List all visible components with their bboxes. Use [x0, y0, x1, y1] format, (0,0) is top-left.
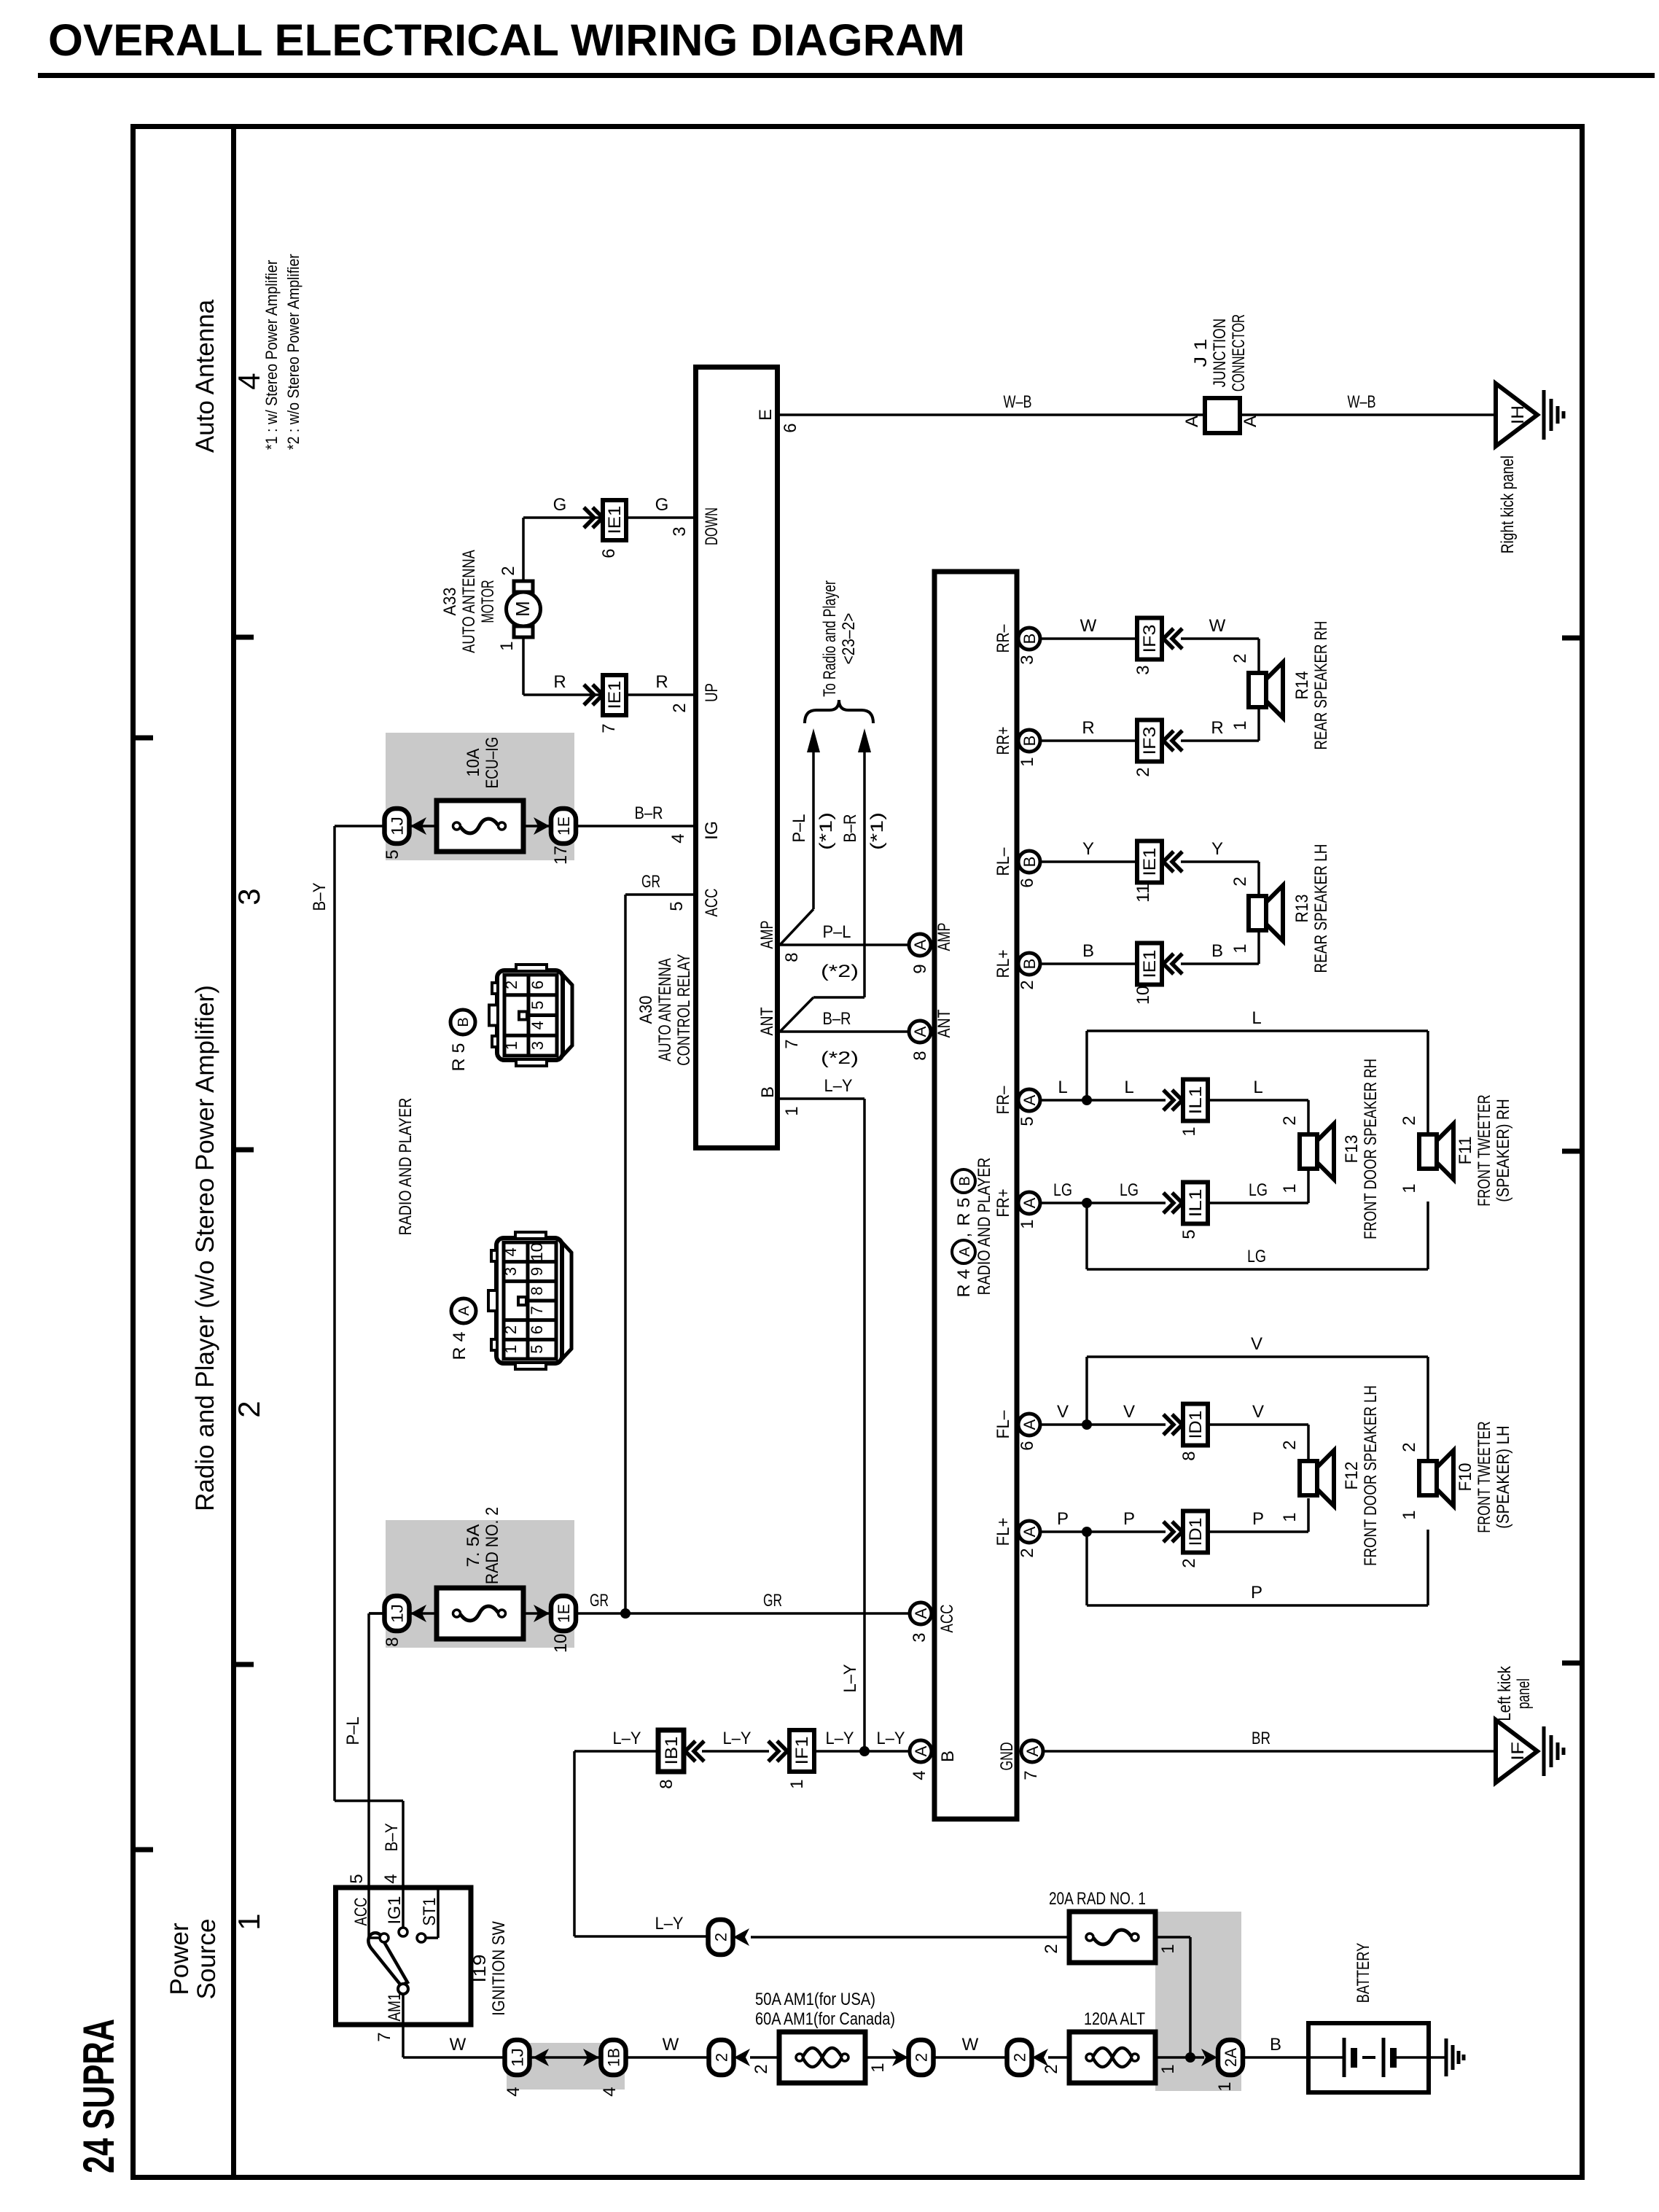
svg-text:RL–: RL–	[994, 847, 1013, 876]
chevron ID1 P	[1163, 1522, 1182, 1542]
svg-text:V: V	[1123, 1402, 1135, 1422]
svg-text:2: 2	[501, 1325, 520, 1334]
notes *1 *2 stereo power amplifier	[262, 254, 302, 450]
svg-text:B–R: B–R	[823, 1009, 851, 1029]
svg-text:ID1: ID1	[1186, 1518, 1206, 1546]
pin 5 FR- of radio	[1018, 1089, 1040, 1111]
svg-text:6: 6	[1018, 1441, 1037, 1450]
svg-text:1: 1	[1400, 1510, 1419, 1519]
speaker F10 FRONT TWEETER LH	[1400, 1421, 1513, 1533]
section ticks on label column	[236, 635, 254, 1667]
gray shade for ALT RAD1 2A area	[1155, 1912, 1241, 2091]
connector circle A pin 8 ANT radio	[909, 1009, 954, 1060]
connector 1J of ECU-IG fuse pin 5	[383, 809, 410, 860]
svg-text:IGNITION SW: IGNITION SW	[489, 1921, 509, 2016]
svg-text:R 4: R 4	[954, 1269, 974, 1298]
svg-text:IH: IH	[1508, 405, 1528, 424]
svg-text:3: 3	[501, 1267, 520, 1276]
connector 2 oval before ALT fuse	[1007, 2040, 1049, 2075]
svg-text:(*2): (*2)	[821, 1048, 859, 1068]
svg-text:A: A	[1241, 416, 1260, 427]
fuse 10A ECU-IG assembly	[335, 733, 693, 860]
svg-text:Y: Y	[1211, 839, 1223, 859]
svg-text:G: G	[655, 495, 669, 515]
switch I19 IGNITION SW box	[336, 1888, 472, 2025]
svg-text:(*1): (*1)	[867, 812, 887, 850]
svg-text:1: 1	[1400, 1183, 1419, 1193]
svg-text:1J: 1J	[389, 1604, 407, 1623]
wire LG radio to IL1 with junction	[1039, 1180, 1166, 1208]
pin 7 ANT of A30 and wire B-R (*2) to radio	[757, 1007, 910, 1068]
svg-text:10A: 10A	[464, 749, 483, 777]
svg-text:(*1): (*1)	[816, 812, 836, 850]
svg-text:2: 2	[1400, 1115, 1419, 1125]
connector IF3 pin 3	[1137, 618, 1162, 660]
ground IH right kick panel	[1496, 383, 1564, 553]
chevron ID1 V	[1163, 1414, 1182, 1435]
svg-text:1E: 1E	[555, 817, 573, 836]
wires P-L and B-R (*1) with up arrows to radio and player	[780, 728, 871, 1032]
svg-text:4: 4	[504, 2087, 523, 2096]
svg-text:24 SUPRA: 24 SUPRA	[74, 2019, 123, 2173]
connector IE1 pin 11	[1137, 841, 1162, 883]
svg-text:W–B: W–B	[1004, 392, 1032, 412]
wire R IF3 to rear speaker RH pin 1	[1181, 707, 1259, 741]
svg-text:W: W	[663, 2035, 679, 2055]
svg-text:7. 5A: 7. 5A	[464, 1524, 483, 1568]
pin E of A30	[756, 409, 800, 433]
svg-text:A33: A33	[440, 588, 460, 616]
svg-text:6: 6	[528, 1325, 546, 1334]
wire G IE1 to A30 DOWN	[626, 516, 693, 519]
svg-text:IB1: IB1	[662, 1737, 682, 1765]
connector 1E of ECU-IG fuse pin 17	[551, 809, 576, 865]
svg-text:2: 2	[752, 2064, 771, 2073]
pin 2 UP of A30	[670, 683, 722, 713]
svg-text:ACC: ACC	[702, 889, 722, 917]
section ticks on left border	[136, 736, 153, 1853]
svg-text:3: 3	[1018, 655, 1037, 664]
connector ID1 pin 2	[1183, 1511, 1208, 1553]
chevron IL1 LG	[1163, 1193, 1182, 1213]
label B-R (*1)	[840, 812, 887, 850]
svg-text:P: P	[1057, 1509, 1069, 1529]
svg-text:B–R: B–R	[635, 803, 663, 823]
svg-text:9: 9	[528, 1267, 546, 1276]
svg-text:3: 3	[528, 1041, 547, 1050]
svg-text:B: B	[456, 1017, 472, 1027]
svg-text:4: 4	[600, 2087, 620, 2096]
svg-text:JUNCTION: JUNCTION	[1210, 319, 1230, 387]
speaker R13 REAR SPEAKER LH	[1249, 844, 1331, 973]
svg-text:AUTO ANTENNA: AUTO ANTENNA	[655, 958, 675, 1062]
svg-text:R13: R13	[1292, 895, 1312, 923]
svg-text:4: 4	[381, 1874, 401, 1883]
svg-text:5: 5	[528, 1001, 547, 1010]
svg-text:A: A	[1023, 1745, 1042, 1756]
chevron IF3 W	[1163, 628, 1182, 649]
svg-text:GR: GR	[590, 1591, 609, 1611]
svg-text:IF: IF	[1508, 1742, 1528, 1761]
chevron IL1 L	[1163, 1090, 1182, 1110]
wire R motor to IE1	[523, 693, 603, 696]
svg-text:5: 5	[528, 1345, 546, 1354]
svg-text:1B: 1B	[605, 2048, 623, 2067]
svg-text:V: V	[1252, 1402, 1264, 1422]
pin 1 RR+ of radio	[1018, 730, 1040, 752]
svg-text:FL+: FL+	[994, 1518, 1013, 1546]
svg-text:IF3: IF3	[1140, 625, 1160, 653]
wire L branch to front tweeter RH pin 2	[1087, 1008, 1428, 1133]
svg-text:B: B	[758, 1086, 778, 1098]
svg-text:L: L	[1058, 1078, 1067, 1097]
wire W from AM1 to 1J	[403, 1994, 505, 2057]
svg-text:RADIO AND PLAYER: RADIO AND PLAYER	[396, 1098, 415, 1236]
svg-text:2: 2	[1179, 1558, 1199, 1568]
wire B-Y from fuse 1J down to ignition switch IG1	[335, 826, 403, 1889]
svg-text:L–Y: L–Y	[824, 1076, 853, 1096]
svg-text:CONNECTOR: CONNECTOR	[1229, 314, 1249, 392]
svg-text:V: V	[1251, 1334, 1262, 1354]
wire E to ground (W-B)	[780, 413, 1496, 416]
svg-text:W: W	[1080, 616, 1097, 636]
pin 8 AMP of A30 and wire P-L (*2) to radio	[757, 921, 910, 982]
svg-text:2: 2	[1400, 1442, 1419, 1452]
svg-text:V: V	[1057, 1402, 1069, 1422]
svg-text:(*2): (*2)	[821, 962, 859, 981]
pin 2 FL+ of radio	[1018, 1521, 1040, 1543]
wire G motor to IE1	[523, 516, 603, 519]
svg-text:10: 10	[528, 1242, 546, 1261]
label To Radio and Player 23-2	[820, 580, 859, 697]
svg-text:A: A	[1020, 1419, 1039, 1430]
svg-text:AMP: AMP	[934, 923, 954, 951]
svg-text:2: 2	[1280, 1440, 1300, 1449]
svg-text:2: 2	[1018, 980, 1037, 989]
svg-text:FR–: FR–	[994, 1086, 1013, 1115]
svg-text:IL1: IL1	[1186, 1086, 1206, 1115]
svg-text:6: 6	[528, 981, 547, 989]
svg-text:RR+: RR+	[994, 727, 1013, 755]
svg-text:G: G	[553, 495, 567, 515]
connector 2 oval on L-Y wire	[709, 1920, 750, 1955]
svg-text:IE1: IE1	[605, 506, 625, 534]
connector IE1 (G) pin 6	[599, 500, 626, 558]
svg-text:P: P	[1252, 1509, 1264, 1529]
svg-text:2: 2	[1011, 2053, 1029, 2062]
svg-text:10: 10	[551, 1634, 571, 1653]
svg-text:1: 1	[502, 1041, 520, 1050]
svg-text:7: 7	[528, 1306, 546, 1315]
svg-text:B: B	[1020, 736, 1039, 747]
speaker F12 FRONT DOOR SPEAKER LH	[1300, 1385, 1381, 1566]
svg-text:9: 9	[910, 964, 930, 973]
wire P ID1 to front door speaker LH pin 1	[1208, 1498, 1308, 1532]
svg-text:L: L	[1252, 1008, 1261, 1028]
svg-text:B: B	[1211, 941, 1223, 961]
wire B 2A to battery	[1242, 2056, 1308, 2059]
svg-text:LG: LG	[1249, 1180, 1268, 1200]
svg-text:A: A	[957, 1247, 973, 1257]
wire L radio to IL1 with junction	[1039, 1078, 1166, 1105]
svg-text:7: 7	[782, 1039, 802, 1048]
battery ground	[1445, 2038, 1448, 2076]
svg-text:IF3: IF3	[1140, 727, 1160, 755]
svg-text:L: L	[1253, 1078, 1262, 1097]
svg-text:A: A	[912, 1608, 930, 1619]
svg-text:6: 6	[599, 548, 619, 558]
wire L-Y bottom link from IB1 to RAD NO.1 fuse	[574, 1729, 709, 1936]
svg-text:2: 2	[1230, 653, 1250, 663]
wire LG branch to front tweeter RH pin 1	[1087, 1202, 1428, 1269]
svg-text:ANT: ANT	[757, 1007, 777, 1035]
svg-text:4: 4	[910, 1770, 929, 1780]
svg-text:5: 5	[667, 901, 687, 911]
svg-text:AM1: AM1	[385, 1993, 405, 2022]
svg-text:R 5: R 5	[954, 1198, 974, 1226]
svg-text:4: 4	[528, 1021, 547, 1029]
speaker F11 FRONT TWEETER RH	[1400, 1094, 1513, 1206]
svg-text:(SPEAKER) LH: (SPEAKER) LH	[1494, 1425, 1513, 1529]
fuse 50A/60A AM1	[750, 1990, 895, 2083]
wire L IL1 to front door speaker RH pin 2	[1208, 1078, 1308, 1133]
svg-text:IL1: IL1	[1186, 1189, 1206, 1218]
svg-text:1E: 1E	[555, 1604, 573, 1623]
wire V radio to ID1 with junction	[1039, 1402, 1166, 1430]
svg-text:8: 8	[782, 952, 802, 962]
svg-text:W–B: W–B	[1348, 392, 1376, 412]
svg-text:L–Y: L–Y	[613, 1729, 641, 1748]
svg-text:R 4: R 4	[450, 1332, 469, 1360]
pin ST1 of ignition switch	[417, 1888, 440, 1942]
wire W to connector 2 before ALT fuse	[932, 2056, 1008, 2059]
svg-text:B: B	[1270, 2035, 1281, 2055]
svg-text:B: B	[938, 1750, 958, 1762]
pin 4 IG of A30	[668, 821, 722, 844]
chevron IB1	[685, 1741, 704, 1761]
svg-text:ACC: ACC	[351, 1898, 371, 1926]
svg-text:B–Y: B–Y	[382, 1823, 402, 1852]
AM1 contact of ignition switch	[375, 1984, 408, 2042]
svg-text:7: 7	[599, 723, 619, 733]
svg-text:1: 1	[497, 641, 517, 650]
svg-text:IG: IG	[702, 821, 722, 840]
svg-text:W: W	[1209, 616, 1226, 636]
connector pair 1J 1B with gray shade	[504, 2040, 626, 2097]
svg-text:I19: I19	[470, 1955, 490, 1983]
svg-text:B: B	[1020, 959, 1039, 970]
label I19 IGNITION SW	[470, 1921, 509, 2016]
svg-text:1: 1	[868, 2063, 888, 2072]
battery	[1308, 1943, 1446, 2092]
connector IF1 pin 1	[787, 1730, 814, 1789]
connector 1J of RAD NO.2 fuse pin 8	[383, 1596, 410, 1647]
svg-text:R: R	[553, 672, 566, 692]
svg-text:R14: R14	[1292, 671, 1312, 700]
connector IL1 pin 1	[1183, 1080, 1208, 1121]
svg-text:L–Y: L–Y	[826, 1729, 854, 1748]
radio and player box	[934, 572, 1017, 1819]
svg-text:J 1: J 1	[1191, 339, 1211, 367]
svg-text:B: B	[1020, 857, 1039, 868]
svg-text:2A: 2A	[1222, 2048, 1240, 2067]
svg-text:B: B	[1020, 634, 1039, 644]
svg-text:3: 3	[670, 526, 690, 536]
svg-text:UP: UP	[702, 683, 722, 702]
wire Y radio to IE1	[1039, 860, 1137, 863]
motor A33 auto antenna motor	[440, 518, 541, 695]
chevron to IE1 (G)	[584, 507, 603, 528]
svg-text:L–Y: L–Y	[877, 1729, 905, 1748]
svg-text:RADIO AND PLAYER: RADIO AND PLAYER	[975, 1158, 994, 1296]
svg-text:(SPEAKER) RH: (SPEAKER) RH	[1494, 1099, 1513, 1202]
svg-text:AUTO ANTENNA: AUTO ANTENNA	[459, 550, 479, 653]
svg-text:L–Y: L–Y	[655, 1914, 684, 1933]
svg-text:3: 3	[1133, 665, 1153, 674]
svg-text:R: R	[655, 672, 668, 692]
connector ID1 pin 8	[1183, 1404, 1208, 1446]
svg-text:8: 8	[657, 1779, 676, 1788]
pin 4 IG1 of ignition switch	[381, 1874, 407, 1936]
wire R radio to IF3	[1039, 739, 1137, 742]
svg-text:RAD NO. 2: RAD NO. 2	[483, 1507, 502, 1584]
svg-text:A: A	[456, 1306, 472, 1316]
svg-text:2: 2	[713, 2053, 731, 2062]
wire W IF3 to rear speaker RH pin 2	[1181, 616, 1259, 673]
svg-text:Source: Source	[192, 1919, 221, 2000]
svg-text:2: 2	[1042, 1944, 1061, 1953]
svg-text:ANT: ANT	[934, 1009, 954, 1037]
svg-text:1: 1	[1018, 757, 1037, 766]
svg-text:L–Y: L–Y	[840, 1664, 860, 1693]
connector IB1 pin 8	[657, 1730, 684, 1789]
svg-text:A: A	[1020, 1526, 1039, 1537]
wire from RAD NO.1 pin 1 down to ALT output junction	[1155, 1937, 1204, 2063]
label P-L (*1)	[789, 812, 836, 850]
svg-text:IE1: IE1	[1140, 848, 1160, 876]
speaker F13 FRONT DOOR SPEAKER RH	[1300, 1059, 1381, 1239]
wire P branch to front tweeter LH pin 1	[1087, 1530, 1428, 1605]
svg-text:120A ALT: 120A ALT	[1084, 2009, 1145, 2029]
svg-text:P–L: P–L	[343, 1717, 363, 1745]
svg-text:2: 2	[1018, 1548, 1037, 1557]
svg-text:6: 6	[1018, 878, 1037, 887]
wire W radio to IF3	[1039, 637, 1137, 640]
svg-text:*2 : w/o Stereo Power Amplifi: *2 : w/o Stereo Power Amplifier	[284, 254, 302, 450]
svg-text:W: W	[962, 2035, 979, 2055]
wire LG IL1 to front door speaker RH pin 1	[1208, 1170, 1308, 1203]
wire B radio to IE1	[1039, 962, 1137, 965]
wire BR radio GND to ground IF	[1042, 1750, 1496, 1753]
svg-text:A30: A30	[636, 996, 656, 1024]
svg-text:A: A	[1020, 1197, 1039, 1208]
chevron to IE1 (R)	[584, 685, 603, 705]
svg-text:R 5: R 5	[449, 1043, 469, 1072]
label 10A ECU-IG	[464, 737, 502, 789]
svg-text:2: 2	[1230, 876, 1250, 886]
svg-text:Left kick: Left kick	[1495, 1665, 1515, 1721]
svg-text:5: 5	[347, 1874, 367, 1883]
svg-text:2: 2	[502, 981, 520, 989]
wire P radio to ID1 with junction	[1039, 1509, 1166, 1537]
connector IE1 pin 10	[1137, 943, 1162, 985]
curly brace to radio and player 23-2	[805, 700, 873, 723]
svg-text:Y: Y	[1082, 839, 1094, 859]
pin 6 RL- of radio	[1018, 851, 1040, 873]
svg-text:8: 8	[528, 1287, 546, 1296]
svg-text:P–L: P–L	[823, 922, 851, 942]
chevron IE1 B	[1163, 954, 1182, 974]
svg-text:F11: F11	[1456, 1137, 1475, 1165]
svg-text:8: 8	[910, 1051, 930, 1060]
svg-text:2: 2	[670, 703, 690, 712]
svg-text:ID1: ID1	[1186, 1411, 1206, 1439]
svg-text:10: 10	[1133, 986, 1153, 1005]
connector IF3 pin 2	[1137, 720, 1162, 762]
svg-text:IG1: IG1	[385, 1896, 405, 1925]
svg-text:20A RAD NO. 1: 20A RAD NO. 1	[1049, 1889, 1146, 1909]
svg-text:1: 1	[1215, 2081, 1235, 2091]
chevron IE1 Y	[1163, 852, 1182, 872]
svg-text:2: 2	[1133, 767, 1153, 776]
svg-text:5: 5	[383, 849, 402, 859]
svg-text:REAR SPEAKER LH: REAR SPEAKER LH	[1311, 844, 1331, 973]
svg-text:<23–2>: <23–2>	[839, 613, 859, 665]
connector 2A pin 1	[1201, 2040, 1243, 2092]
pin 5 ACC of A30	[667, 889, 722, 917]
svg-text:L–Y: L–Y	[723, 1729, 752, 1748]
relay A30 AUTO ANTENNA CONTROL RELAY box	[696, 367, 778, 1148]
svg-text:P–L: P–L	[789, 814, 809, 843]
svg-text:BR: BR	[1252, 1729, 1270, 1748]
svg-text:ECU–IG: ECU–IG	[483, 737, 502, 789]
pin 3 DOWN of A30	[670, 507, 722, 545]
svg-text:FRONT DOOR SPEAKER LH: FRONT DOOR SPEAKER LH	[1361, 1385, 1381, 1566]
title underline	[38, 73, 1655, 78]
svg-text:IF1: IF1	[792, 1737, 812, 1765]
svg-text:1: 1	[1280, 1512, 1300, 1522]
svg-text:4: 4	[501, 1247, 520, 1256]
wire V ID1 to front door speaker LH pin 2	[1208, 1402, 1308, 1461]
pin 2 RL+ of radio	[1018, 953, 1040, 975]
svg-text:FRONT TWEETER: FRONT TWEETER	[1475, 1094, 1494, 1206]
svg-text:1J: 1J	[389, 817, 407, 836]
svg-text:A: A	[1020, 1094, 1039, 1105]
wire L-Y to RAD NO.1 fuse	[751, 1936, 1069, 1939]
connector circle A pin 3 ACC radio	[910, 1602, 957, 1643]
wire GR A30 ACC down to radio ACC	[625, 895, 693, 1613]
svg-text:17: 17	[551, 846, 571, 865]
svg-text:7: 7	[375, 2032, 394, 2041]
svg-text:1: 1	[1230, 720, 1250, 730]
svg-text:E: E	[756, 409, 776, 421]
wire P-L from RAD NO.2 1J down to ignition ACC	[369, 1613, 385, 1889]
svg-text:GR: GR	[641, 872, 660, 892]
svg-text:To Radio and Player: To Radio and Player	[820, 580, 840, 697]
svg-text:2: 2	[499, 566, 518, 575]
svg-text:LG: LG	[1120, 1180, 1139, 1200]
chevron IF3 R	[1163, 731, 1182, 751]
label 7.5A RAD NO.2	[464, 1507, 502, 1584]
svg-text:A: A	[911, 939, 929, 950]
svg-text:1: 1	[1280, 1183, 1300, 1193]
connector 1E of RAD NO.2 fuse pin 10	[551, 1596, 576, 1653]
svg-text:1: 1	[782, 1106, 802, 1115]
svg-text:6: 6	[781, 423, 800, 432]
svg-text:B–R: B–R	[840, 814, 860, 843]
svg-text:1: 1	[1179, 1126, 1199, 1136]
svg-text:L: L	[1124, 1078, 1133, 1097]
